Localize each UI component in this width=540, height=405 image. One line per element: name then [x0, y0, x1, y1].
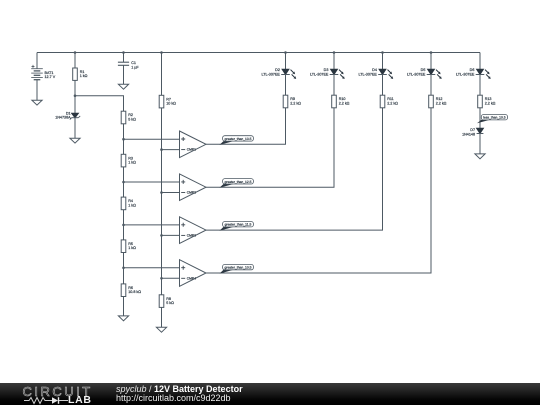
- svg-text:D7: D7: [470, 128, 475, 132]
- svg-text:1 kΩ: 1 kΩ: [128, 161, 136, 165]
- wire R8 to ground: [161, 307, 163, 327]
- wire LED to R12: [430, 75, 432, 96]
- banner bottom bar: [0, 383, 540, 405]
- node zener reference junction: [74, 94, 77, 97]
- wire ladder into R5: [123, 225, 125, 240]
- op-amp CMP1: [180, 131, 207, 158]
- resistor R10 2.2 k: [332, 95, 350, 108]
- node ladder tap 1: [122, 138, 125, 141]
- resistor R5 1: [121, 240, 136, 253]
- LED D3 LTL-307EE: [310, 68, 345, 79]
- svg-text:5 kΩ: 5 kΩ: [166, 301, 174, 305]
- wire battery to ground: [36, 80, 38, 101]
- node label greater_than_13.5: [220, 136, 254, 145]
- junction top rail at C1: [122, 51, 125, 54]
- svg-text:CMP2: CMP2: [187, 191, 196, 195]
- wire ladder tap to CMP2 + input: [124, 181, 180, 183]
- banner title text: [116, 384, 243, 394]
- svg-text:1 kΩ: 1 kΩ: [80, 74, 88, 78]
- svg-text:LTL-307EE: LTL-307EE: [262, 73, 281, 77]
- wire R1 to node: [74, 80, 76, 95]
- wire ladder tap to CMP1 + input: [124, 138, 180, 140]
- wire reference rail to CMP4 - input: [162, 277, 180, 279]
- wire CMP3 output to LED column 3: [206, 108, 383, 230]
- svg-text:D4: D4: [372, 68, 377, 72]
- svg-text:2.2 kΩ: 2.2 kΩ: [339, 101, 350, 105]
- svg-text:2.2 kΩ: 2.2 kΩ: [436, 101, 447, 105]
- svg-text:LTL-307EE: LTL-307EE: [359, 73, 378, 77]
- wire node to ladder top: [75, 96, 124, 112]
- ground D1: [70, 138, 80, 143]
- wire ladder into R4: [123, 182, 125, 197]
- wire ladder tap to CMP4 + input: [124, 267, 180, 269]
- resistor R11 2.2 k: [380, 95, 398, 108]
- wire LED to R11: [382, 75, 384, 96]
- node label less_than_10.5: [477, 115, 508, 124]
- svg-text:greater_than_12.5: greater_than_12.5: [225, 180, 252, 184]
- wire reference rail to CMP3 - input: [162, 234, 180, 236]
- wire reference rail to CMP2 - input: [162, 192, 180, 194]
- wire rail to LED D6: [479, 53, 481, 70]
- junction reference rail to CMP4 - input: [160, 277, 163, 280]
- resistor R2 5: [121, 111, 136, 124]
- wire ladder into R6: [123, 268, 125, 284]
- svg-text:2.2 kΩ: 2.2 kΩ: [485, 101, 496, 105]
- banner url text: [116, 393, 231, 403]
- wire ladder into R3: [123, 139, 125, 154]
- svg-text:greater_than_11.5: greater_than_11.5: [225, 223, 252, 227]
- node label greater_than_11.5: [220, 222, 254, 231]
- svg-text:CMP3: CMP3: [187, 234, 196, 238]
- resistor R4 1: [121, 197, 136, 210]
- svg-text:D5: D5: [421, 68, 426, 72]
- svg-text:1 µF: 1 µF: [131, 66, 139, 70]
- svg-text:greater_than_13.5: greater_than_13.5: [225, 137, 252, 141]
- wire CMP1 output to LED column 1: [206, 108, 286, 145]
- svg-text:LTL-307EE: LTL-307EE: [456, 73, 475, 77]
- ground D7: [475, 154, 485, 159]
- svg-text:10 kΩ: 10 kΩ: [166, 102, 176, 106]
- junction reference rail to CMP1 - input: [160, 148, 163, 151]
- svg-text:1N4738A: 1N4738A: [55, 115, 71, 119]
- resistor R3 1: [121, 154, 136, 167]
- resistor R9 2.2 k: [283, 95, 301, 108]
- wire node to D1: [74, 96, 76, 114]
- junction top rail at R1: [74, 51, 77, 54]
- wire rail to LED D4: [382, 53, 384, 70]
- wire CMP4 output to LED column 4: [206, 108, 431, 273]
- LED D2 LTL-307EE: [262, 68, 297, 79]
- junction top rail at LED col1: [284, 51, 287, 54]
- zener diode D1 1N4738A: [55, 112, 80, 120]
- junction top rail at LED col3: [381, 51, 384, 54]
- svg-text:2.2 kΩ: 2.2 kΩ: [290, 101, 301, 105]
- wire rail to LED D3: [333, 53, 335, 70]
- wire LED to R9: [285, 75, 287, 96]
- junction reference rail to CMP3 - input: [160, 234, 163, 237]
- wire CMP2 output to LED column 2: [206, 108, 334, 187]
- junction reference rail to CMP2 - input: [160, 191, 163, 194]
- battery BAT1: [31, 65, 56, 80]
- wire top supply rail: [37, 52, 480, 54]
- wire LED to R10: [333, 75, 335, 96]
- junction top rail at LED col4: [430, 51, 433, 54]
- svg-text:5 kΩ: 5 kΩ: [128, 117, 136, 121]
- LED D6 LTL-307EE: [456, 68, 491, 79]
- svg-text:LTL-307EE: LTL-307EE: [407, 73, 426, 77]
- wire R13 down to D7: [479, 108, 481, 129]
- resistor R1 1 k: [73, 68, 88, 80]
- wire rail to R7: [161, 53, 163, 96]
- wire rail to R1: [74, 53, 76, 69]
- svg-text:12.7 V: 12.7 V: [45, 75, 56, 79]
- svg-text:less_than_10.5: less_than_10.5: [483, 116, 506, 120]
- op-amp CMP2: [180, 174, 207, 201]
- wire rail to C1: [123, 53, 125, 63]
- svg-text:CMP1: CMP1: [187, 148, 196, 152]
- svg-text:D6: D6: [470, 68, 475, 72]
- svg-text:LTL-307EE: LTL-307EE: [310, 73, 329, 77]
- wire R5 to tap: [123, 253, 125, 268]
- junction top rail at R7: [160, 51, 163, 54]
- junction top rail at LED col2: [333, 51, 336, 54]
- svg-text:D2: D2: [275, 68, 280, 72]
- svg-text:2.2 kΩ: 2.2 kΩ: [387, 101, 398, 105]
- node ladder tap 2: [122, 181, 125, 184]
- ground R8: [156, 327, 166, 332]
- op-amp CMP3: [180, 217, 207, 244]
- resistor R13 2.2 k: [478, 95, 496, 108]
- node label greater_than_10.5: [220, 264, 254, 273]
- wire ladder tap to CMP3 + input: [124, 224, 180, 226]
- ground battery: [32, 100, 42, 105]
- resistor R12 2.2 k: [429, 95, 447, 108]
- LED D5 LTL-307EE: [407, 68, 442, 79]
- wire reference rail to CMP1 - input: [162, 149, 180, 151]
- wire R6 to ground: [123, 297, 125, 316]
- wire C1 to ground: [123, 65, 125, 84]
- node ladder tap 4: [122, 266, 125, 269]
- svg-text:C1: C1: [131, 61, 136, 65]
- wire R4 to tap: [123, 210, 125, 225]
- resistor R7 10 k: [159, 95, 176, 108]
- LED D4 LTL-307EE: [359, 68, 394, 79]
- wire D7 to ground: [479, 134, 481, 154]
- logo CircuitLab: [23, 384, 103, 396]
- wire D1 to ground: [74, 118, 76, 139]
- wire R2 to tap: [123, 124, 125, 139]
- resistor R8 5 k: [159, 295, 174, 308]
- node label greater_than_12.5: [220, 179, 254, 188]
- wire reference rail vertical: [161, 108, 163, 295]
- wire rail to LED D5: [430, 53, 432, 70]
- svg-text:CMP4: CMP4: [187, 276, 196, 280]
- diode D7 1N4148: [462, 128, 483, 137]
- svg-text:D3: D3: [324, 68, 329, 72]
- ground ladder: [118, 316, 128, 321]
- op-amp CMP4: [180, 260, 207, 287]
- wire R3 to tap: [123, 167, 125, 182]
- capacitor C1 1uF: [118, 61, 139, 70]
- wire LED to R13: [479, 75, 481, 96]
- svg-text:1 kΩ: 1 kΩ: [128, 246, 136, 250]
- wire battery to rail: [36, 53, 38, 69]
- node ladder tap 3: [122, 224, 125, 227]
- wire rail to LED D2: [285, 53, 287, 70]
- ground C1: [118, 84, 128, 89]
- svg-text:10.8 kΩ: 10.8 kΩ: [128, 290, 141, 294]
- svg-text:1N4148: 1N4148: [462, 132, 475, 136]
- resistor R6 10.8: [121, 284, 141, 297]
- svg-text:greater_than_10.5: greater_than_10.5: [225, 266, 252, 270]
- svg-text:1 kΩ: 1 kΩ: [128, 203, 136, 207]
